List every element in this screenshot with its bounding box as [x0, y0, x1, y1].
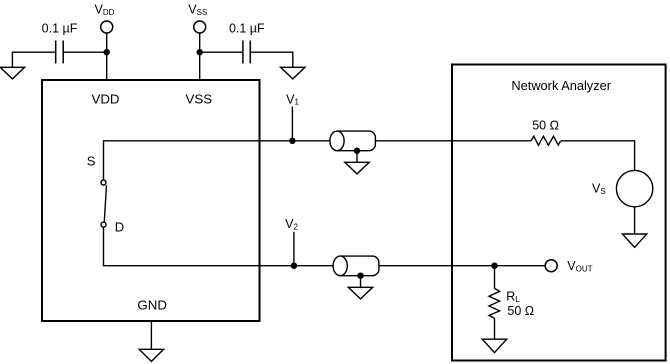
- value label 0.1 uF (C2): [229, 22, 265, 36]
- wire GND pin to ground: [150, 321, 152, 349]
- wire resistor to VS: [561, 141, 635, 171]
- label VSS supply: [188, 3, 207, 17]
- value label 50 Ohm (RL): [507, 304, 534, 318]
- junction coax1 shield: [354, 148, 360, 154]
- ground (DUT): [139, 349, 163, 361]
- pin label VSS: [185, 91, 212, 106]
- coax cable (V1) end ellipse: [330, 131, 344, 151]
- terminal VOUT: [545, 260, 557, 272]
- label VDD supply: [95, 3, 115, 17]
- ground (RL): [482, 339, 506, 352]
- capacitor C2 0.1uF: [243, 41, 250, 64]
- terminal VSS: [194, 21, 206, 33]
- svg-text:GND: GND: [137, 298, 167, 313]
- svg-text:RL: RL: [506, 290, 520, 304]
- ground (VS): [622, 234, 646, 247]
- junction RL node: [491, 263, 497, 269]
- title Network Analyzer: [511, 78, 611, 93]
- wire V2 stub: [293, 232, 295, 266]
- coax cable (V1) body: [337, 131, 375, 151]
- label S: [87, 153, 96, 168]
- wire coax1 shield to ground: [356, 151, 358, 163]
- capacitor C1 0.1uF: [56, 41, 64, 64]
- junction coax2 shield: [357, 273, 363, 279]
- Network Analyzer box: [452, 65, 666, 361]
- wire VSS terminal to box: [199, 33, 201, 80]
- coax cable (V2) end ellipse: [333, 256, 347, 276]
- label RL: [506, 290, 520, 304]
- svg-text:50 Ω: 50 Ω: [507, 304, 534, 318]
- ground (C2): [281, 67, 305, 79]
- wire D to V2 line: [104, 227, 334, 266]
- svg-text:0.1 µF: 0.1 µF: [229, 22, 265, 36]
- wire RL to ground: [494, 318, 496, 339]
- svg-text:S: S: [87, 153, 96, 168]
- svg-text:VSS: VSS: [188, 3, 207, 17]
- wire coax1 to network analyzer: [375, 140, 531, 142]
- svg-text:VDD: VDD: [91, 91, 119, 106]
- wire V1 stub: [291, 107, 293, 141]
- pin label GND: [137, 298, 167, 313]
- svg-text:VOUT: VOUT: [567, 259, 592, 273]
- svg-text:Network Analyzer: Network Analyzer: [511, 78, 611, 93]
- wire coax2 shield to ground: [360, 276, 362, 288]
- junction V2: [291, 263, 297, 269]
- switch contact S: [101, 180, 106, 185]
- ground (C1): [0, 67, 24, 79]
- source VS circle: [616, 170, 652, 206]
- svg-text:VDD: VDD: [95, 3, 115, 17]
- label D: [115, 220, 124, 235]
- svg-text:D: D: [115, 220, 124, 235]
- pin label VDD: [91, 91, 119, 106]
- svg-text:0.1 µF: 0.1 µF: [42, 22, 78, 36]
- svg-text:V2: V2: [285, 217, 298, 231]
- wire VS to ground: [634, 207, 636, 234]
- wire VDD terminal to box: [106, 33, 108, 80]
- DUT box: [42, 80, 260, 321]
- coax cable (V2) body: [340, 256, 379, 276]
- wire VSS node to capacitor C2: [200, 51, 243, 53]
- ground (coax1): [345, 162, 369, 174]
- value label 50 Ohm (source): [532, 118, 559, 132]
- junction VSS node: [197, 49, 203, 55]
- junction VDD node: [104, 49, 110, 55]
- wire S to V1 line: [104, 141, 330, 180]
- svg-text:50 Ω: 50 Ω: [532, 118, 559, 132]
- label VOUT: [567, 259, 592, 273]
- wire coax2 to VOUT node: [379, 265, 545, 267]
- resistor RL 50 Ohm: [489, 288, 500, 318]
- switch contact D: [101, 222, 106, 227]
- value label 0.1 uF (C1): [42, 22, 78, 36]
- wire C1 to ground: [12, 52, 55, 67]
- label VS: [592, 182, 606, 197]
- label V2: [285, 217, 298, 231]
- ground (coax2): [348, 287, 372, 299]
- wire VDD node to capacitor C1: [63, 51, 106, 53]
- svg-text:V1: V1: [286, 92, 299, 106]
- svg-text:VS: VS: [592, 182, 606, 197]
- terminal VDD: [101, 21, 113, 33]
- svg-text:VSS: VSS: [185, 91, 212, 106]
- junction V1: [289, 138, 295, 144]
- label V1: [286, 92, 299, 106]
- switch arm: [104, 185, 106, 221]
- wire RL node to resistor: [494, 266, 496, 289]
- wire C2 to ground: [250, 52, 292, 67]
- resistor 50 Ohm (source): [531, 136, 561, 145]
